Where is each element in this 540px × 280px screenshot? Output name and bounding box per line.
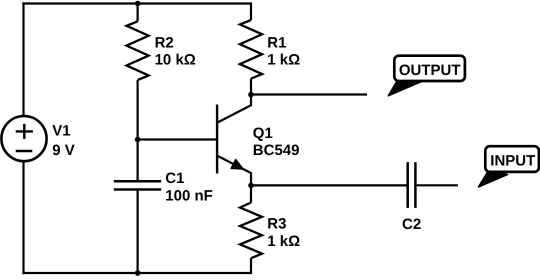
wire C1 to bottom rail [137,190,139,274]
resistor R2 [127,4,149,81]
svg-text:1 kΩ: 1 kΩ [267,233,300,250]
node collector [248,92,254,98]
wire bottom rail [22,272,252,274]
wire left rail upper [22,2,24,116]
capacitor C1 [114,181,161,189]
svg-text:OUTPUT: OUTPUT [399,62,461,79]
svg-text:9 V: 9 V [52,142,75,159]
svg-text:R2: R2 [155,35,174,52]
node base junction [135,137,141,143]
voltage source V1 [1,116,46,161]
wire collector output [251,93,367,95]
label C1 100 nF [165,170,213,205]
node top junction [135,1,141,7]
transistor Q1 [217,95,251,186]
callout OUTPUT [388,56,465,96]
label R1 1 kOhm [267,35,300,69]
resistor R1 [240,2,262,78]
wire R2 to C1 [137,80,139,181]
node bottom junction [135,270,141,276]
wire base [138,138,217,140]
svg-text:INPUT: INPUT [490,152,535,169]
wire R1 to collector node [250,79,252,95]
wire C2 right [415,184,458,186]
label R2 10 kOhm [155,35,196,69]
svg-text:100 nF: 100 nF [165,188,213,205]
label V1 9V [52,123,75,159]
wire left rail lower [22,161,24,274]
svg-text:Q1: Q1 [253,125,273,142]
svg-text:BC549: BC549 [253,142,300,159]
svg-text:R3: R3 [267,216,286,233]
resistor R3 [240,185,262,273]
svg-text:1 kΩ: 1 kΩ [267,52,300,69]
label Q1 BC549 [253,125,300,159]
callout INPUT [478,146,538,187]
wire top rail [22,2,251,4]
capacitor C2 [408,162,416,208]
wire emitter to C2 [251,184,408,186]
svg-text:10 kΩ: 10 kΩ [155,52,196,69]
svg-text:V1: V1 [52,123,70,140]
label R3 1 kOhm [267,216,300,250]
svg-text:C1: C1 [165,170,184,187]
svg-text:C2: C2 [402,216,421,233]
svg-text:R1: R1 [267,35,286,52]
node emitter [248,183,254,189]
